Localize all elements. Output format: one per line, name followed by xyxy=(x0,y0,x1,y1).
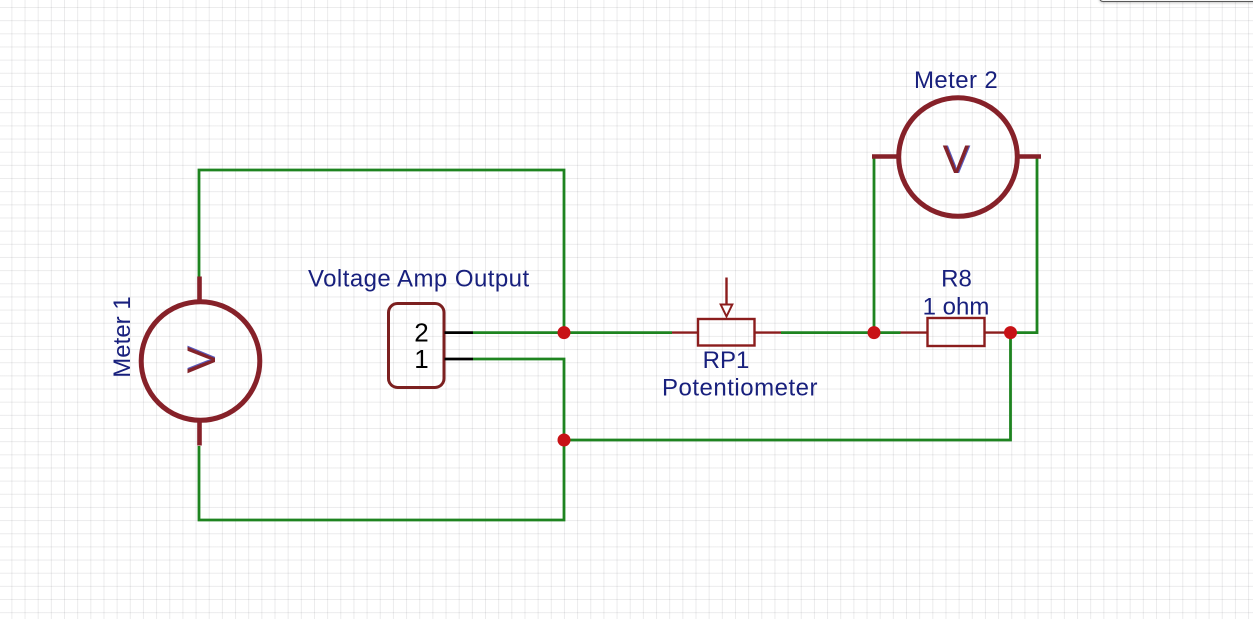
svg-text:R8: R8 xyxy=(941,266,972,293)
meter M1 circle xyxy=(141,277,260,446)
floating panel sliver top right xyxy=(1099,0,1253,2)
svg-text:V: V xyxy=(943,138,970,182)
junction node B xyxy=(868,326,881,339)
svg-text:1: 1 xyxy=(414,344,428,374)
svg-text:RP1: RP1 xyxy=(703,347,750,374)
RP1 wiper arrow head xyxy=(721,305,733,317)
pin 1 stub xyxy=(445,358,474,361)
wire: RP1 right to R8 left through node B xyxy=(781,331,901,334)
meter M2 circle xyxy=(872,98,1041,217)
wire: node C down to node D xyxy=(564,333,1011,440)
R8 right stub xyxy=(985,331,1011,333)
junction node C xyxy=(1004,326,1017,339)
meter M2 left pin xyxy=(872,154,898,159)
junction node A xyxy=(558,326,571,339)
RP1 left stub xyxy=(672,331,698,333)
svg-text:2: 2 xyxy=(414,317,428,347)
wire: Meter2 left pin down to node B xyxy=(873,155,876,333)
pin 2 stub xyxy=(445,331,474,334)
junction node D xyxy=(558,434,571,447)
RP1 wiper arrow line xyxy=(725,278,727,305)
svg-text:Potentiometer: Potentiometer xyxy=(662,374,818,401)
svg-text:Meter 1: Meter 1 xyxy=(109,296,136,377)
svg-text:1 ohm: 1 ohm xyxy=(923,293,990,320)
resistor R8 xyxy=(901,318,1011,346)
R8 left stub xyxy=(901,331,928,333)
wire: pin2 of U1 to RP1 left xyxy=(473,331,672,334)
meter M1 top pin xyxy=(197,277,202,304)
svg-text:V: V xyxy=(180,346,224,373)
meter M1 bottom pin xyxy=(197,419,202,446)
svg-text:Voltage Amp Output: Voltage Amp Output xyxy=(308,265,530,292)
potentiometer RP1 xyxy=(672,278,781,346)
meter M2 right pin xyxy=(1018,154,1041,159)
svg-text:Meter 2: Meter 2 xyxy=(914,67,998,94)
RP1 right stub xyxy=(755,331,782,333)
wire: Meter1 top to node A (pin2 net) xyxy=(199,170,564,333)
wire: pin1 of U1 down through node D to Meter1 bottom xyxy=(199,359,564,520)
connector U1 Voltage Amp Output box xyxy=(389,304,474,388)
wire: node C right and up to Meter2 right pin xyxy=(1011,157,1038,333)
